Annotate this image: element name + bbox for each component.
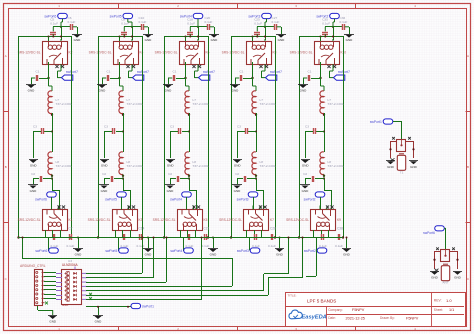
svg-text:GND: GND xyxy=(75,253,83,257)
svg-text:SRS-12VDC-SL: SRS-12VDC-SL xyxy=(286,218,309,222)
svg-text:T37-2-COIL: T37-2-COIL xyxy=(193,164,210,168)
svg-text:K9: K9 xyxy=(337,218,341,222)
svg-text:ARDUINO_CTRL: ARDUINO_CTRL xyxy=(20,264,46,268)
svg-text:2021-12-25: 2021-12-25 xyxy=(346,316,365,320)
svg-text:GND: GND xyxy=(234,164,242,168)
svg-text:ANT: ANT xyxy=(442,281,448,285)
svg-text:T37-2-COIL: T37-2-COIL xyxy=(56,102,73,106)
svg-text:K2: K2 xyxy=(69,51,73,55)
svg-text:C1: C1 xyxy=(36,70,40,74)
svg-text:GND: GND xyxy=(343,253,351,257)
svg-text:swPort5: swPort5 xyxy=(105,197,117,201)
svg-text:K1: K1 xyxy=(69,218,73,222)
svg-text:C2: C2 xyxy=(235,172,239,176)
svg-text:swPort7: swPort7 xyxy=(203,70,215,74)
svg-text:B: B xyxy=(467,165,469,169)
svg-text:swPort7: swPort7 xyxy=(66,70,78,74)
svg-text:T37-2-COIL: T37-2-COIL xyxy=(127,102,144,106)
svg-text:C3: C3 xyxy=(104,124,108,128)
svg-text:C1: C1 xyxy=(308,70,312,74)
svg-text:C1: C1 xyxy=(173,70,177,74)
svg-text:0.1uF: 0.1uF xyxy=(254,21,262,25)
svg-text:C2: C2 xyxy=(303,172,307,176)
svg-text:0.1uF: 0.1uF xyxy=(50,21,58,25)
svg-text:swPort7: swPort7 xyxy=(270,70,282,74)
svg-text:K7: K7 xyxy=(270,218,274,222)
svg-text:Sheet:: Sheet: xyxy=(434,308,443,312)
svg-text:C2: C2 xyxy=(168,172,172,176)
svg-text:F5NPV: F5NPV xyxy=(406,316,419,320)
svg-text:GND: GND xyxy=(210,253,218,257)
svg-text:GND: GND xyxy=(167,164,175,168)
svg-text:T37-2-COIL: T37-2-COIL xyxy=(328,164,345,168)
svg-text:swPort6: swPort6 xyxy=(35,249,47,253)
svg-text:K8: K8 xyxy=(273,51,277,55)
svg-text:SRS-12VDC-SL: SRS-12VDC-SL xyxy=(18,51,41,55)
svg-text:GND: GND xyxy=(62,303,68,307)
svg-text:ULN2004A: ULN2004A xyxy=(62,263,78,267)
svg-text:GND: GND xyxy=(410,165,418,169)
svg-text:GND: GND xyxy=(276,253,284,257)
svg-text:swPort2: swPort2 xyxy=(304,197,316,201)
svg-text:GND: GND xyxy=(30,164,38,168)
svg-text:swPort2: swPort2 xyxy=(304,249,316,253)
svg-text:0.1uF: 0.1uF xyxy=(335,244,343,248)
svg-text:GND: GND xyxy=(454,275,462,279)
svg-text:C38: C38 xyxy=(337,227,343,231)
svg-text:GND: GND xyxy=(302,189,310,193)
svg-text:0.1uF: 0.1uF xyxy=(205,20,213,24)
svg-text:T37-2-COIL: T37-2-COIL xyxy=(260,164,277,168)
svg-text:GND: GND xyxy=(300,89,308,93)
svg-text:REV:: REV: xyxy=(434,299,442,303)
svg-text:SRS-12VDC-SL: SRS-12VDC-SL xyxy=(155,51,178,55)
svg-text:F5NPV: F5NPV xyxy=(352,308,365,312)
svg-text:swPort1: swPort1 xyxy=(142,304,154,308)
svg-text:SRS-12VDC-SL: SRS-12VDC-SL xyxy=(222,51,245,55)
svg-text:SRS-12VDC-SL: SRS-12VDC-SL xyxy=(153,218,176,222)
svg-text:0.1uF: 0.1uF xyxy=(51,244,59,248)
svg-text:GND: GND xyxy=(101,164,109,168)
svg-text:C3: C3 xyxy=(170,124,174,128)
svg-text:C3: C3 xyxy=(33,124,37,128)
svg-text:swPort3: swPort3 xyxy=(237,249,249,253)
svg-text:C28: C28 xyxy=(270,227,276,231)
svg-text:0.1uF: 0.1uF xyxy=(137,244,145,248)
svg-text:C2: C2 xyxy=(31,172,35,176)
svg-text:swPort7: swPort7 xyxy=(338,70,350,74)
svg-text:GND: GND xyxy=(145,253,153,257)
svg-text:C: C xyxy=(5,277,7,281)
svg-text:GND: GND xyxy=(387,165,395,169)
svg-text:C3: C3 xyxy=(305,124,309,128)
svg-text:GND: GND xyxy=(431,275,439,279)
svg-text:K4: K4 xyxy=(140,51,144,55)
svg-text:K5: K5 xyxy=(204,218,208,222)
svg-text:GND: GND xyxy=(30,189,38,193)
svg-text:C14: C14 xyxy=(139,227,145,231)
svg-text:Date:: Date: xyxy=(328,316,336,320)
svg-text:0.1uF: 0.1uF xyxy=(252,244,260,248)
svg-text:0.1uF: 0.1uF xyxy=(121,21,129,25)
svg-text:LPF 5 BANDS: LPF 5 BANDS xyxy=(307,298,336,303)
svg-text:GND: GND xyxy=(99,89,107,93)
svg-text:swPort4: swPort4 xyxy=(170,249,182,253)
svg-text:T37-2-COIL: T37-2-COIL xyxy=(260,102,277,106)
svg-text:GND: GND xyxy=(165,89,173,93)
svg-text:swPort6: swPort6 xyxy=(423,231,435,235)
svg-text:SRS-12VDC-SL: SRS-12VDC-SL xyxy=(219,218,242,222)
svg-text:swPort1: swPort1 xyxy=(370,120,382,124)
svg-text:T1: T1 xyxy=(400,170,404,174)
svg-text:TITLE:: TITLE: xyxy=(288,294,297,298)
svg-text:0.1uF: 0.1uF xyxy=(68,20,76,24)
svg-text:0.1uF: 0.1uF xyxy=(202,244,210,248)
svg-text:1.0: 1.0 xyxy=(446,298,452,303)
svg-text:0.1uF: 0.1uF xyxy=(186,244,194,248)
svg-text:GND: GND xyxy=(167,189,175,193)
svg-text:GND: GND xyxy=(95,320,103,324)
svg-text:GND: GND xyxy=(28,89,36,93)
svg-text:0.1uF: 0.1uF xyxy=(268,244,276,248)
svg-text:swPort5: swPort5 xyxy=(105,249,117,253)
svg-text:C7: C7 xyxy=(69,227,73,231)
svg-text:SRS-12VDC-SL: SRS-12VDC-SL xyxy=(88,218,111,222)
svg-text:Drawn By:: Drawn By: xyxy=(380,316,395,320)
svg-text:0.1uF: 0.1uF xyxy=(322,21,330,25)
svg-text:GND: GND xyxy=(234,189,242,193)
svg-text:EasyEDA: EasyEDA xyxy=(302,314,327,320)
svg-text:C1: C1 xyxy=(107,70,111,74)
svg-text:swPort7: swPort7 xyxy=(137,70,149,74)
svg-text:0.1uF: 0.1uF xyxy=(319,244,327,248)
svg-text:GND: GND xyxy=(346,38,354,42)
svg-text:0.1uF: 0.1uF xyxy=(272,20,280,24)
svg-text:T37-2-COIL: T37-2-COIL xyxy=(193,102,210,106)
svg-text:T37-2-COIL: T37-2-COIL xyxy=(56,164,73,168)
svg-text:GND: GND xyxy=(101,189,109,193)
svg-text:0.1uF: 0.1uF xyxy=(67,244,75,248)
svg-text:1/1: 1/1 xyxy=(449,308,454,312)
svg-text:SRS-12VDC-SL: SRS-12VDC-SL xyxy=(18,218,41,222)
svg-text:SRS-12VDC-SL: SRS-12VDC-SL xyxy=(89,51,112,55)
svg-text:GND: GND xyxy=(232,89,240,93)
svg-text:swPort5: swPort5 xyxy=(110,14,122,18)
svg-text:C3: C3 xyxy=(237,124,241,128)
svg-text:GND: GND xyxy=(74,38,82,42)
svg-text:0.1uF: 0.1uF xyxy=(121,244,129,248)
svg-text:GND: GND xyxy=(145,38,153,42)
svg-text:C21: C21 xyxy=(204,227,210,231)
svg-text:T37-2-COIL: T37-2-COIL xyxy=(127,164,144,168)
svg-text:0.1uF: 0.1uF xyxy=(139,20,147,24)
svg-text:0.1uF: 0.1uF xyxy=(340,20,348,24)
svg-text:swPort6: swPort6 xyxy=(35,197,47,201)
svg-text:Company:: Company: xyxy=(328,308,343,312)
svg-text:GND: GND xyxy=(302,164,310,168)
svg-text:B: B xyxy=(5,165,7,169)
svg-text:A: A xyxy=(467,54,469,58)
svg-text:swPort4: swPort4 xyxy=(170,197,182,201)
svg-text:A: A xyxy=(5,54,7,58)
svg-text:T37-2-COIL: T37-2-COIL xyxy=(328,102,345,106)
svg-text:C1: C1 xyxy=(240,70,244,74)
svg-text:0.1uF: 0.1uF xyxy=(187,21,195,25)
svg-text:GND: GND xyxy=(211,38,219,42)
svg-text:swPort3: swPort3 xyxy=(237,197,249,201)
svg-text:C2: C2 xyxy=(102,172,106,176)
svg-text:SRS-12VDC-SL: SRS-12VDC-SL xyxy=(290,51,313,55)
svg-text:GND: GND xyxy=(278,38,286,42)
svg-text:C: C xyxy=(467,277,469,281)
svg-text:K3: K3 xyxy=(139,218,143,222)
svg-text:K6: K6 xyxy=(206,51,210,55)
svg-text:GND: GND xyxy=(49,320,57,324)
